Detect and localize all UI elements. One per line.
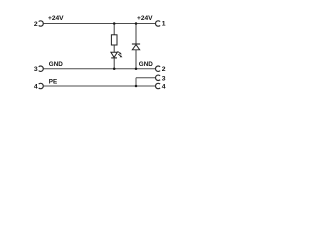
svg-text:1: 1 [162,21,166,28]
connector socket left pin 2 [39,21,44,26]
wire GND rail [43,68,155,70]
junction dot GND / diode branch [135,67,138,70]
junction dot +24V / resistor branch [113,22,116,25]
svg-text:+24V: +24V [48,15,64,22]
connector socket left pin 4 [39,83,44,88]
svg-text:4: 4 [162,84,166,91]
wire resistor branch top [113,24,115,35]
connector socket right pin 1 [156,21,161,26]
wire resistor to LED [113,45,115,52]
svg-text:GND: GND [49,61,63,68]
wire LED to GND [113,58,115,69]
resistor [111,35,117,45]
svg-text:2: 2 [162,66,166,73]
wire diode to GND [135,50,137,69]
junction dot +24V / diode branch [135,22,138,25]
LED D1 [111,51,123,58]
svg-text:PE: PE [49,79,57,86]
svg-text:2: 2 [34,21,38,28]
wire jumper pin3-pin4 [135,78,137,86]
wire diode branch top [135,24,137,45]
wire PE rail [43,85,155,87]
junction dot GND / LED branch [113,67,116,70]
svg-text:GND: GND [139,61,153,68]
svg-text:+24V: +24V [137,15,153,22]
wire pin3 stub [136,77,156,79]
connector socket right pin 2 [156,66,161,71]
svg-text:3: 3 [34,66,38,73]
connector socket right pin 3 [156,75,161,80]
connector socket right pin 4 [156,83,161,88]
svg-text:4: 4 [34,83,38,90]
svg-text:3: 3 [162,75,166,82]
connector socket left pin 3 [39,66,44,71]
diode D2 (suppressor, cathode up) [132,44,140,50]
wire +24V rail [43,23,155,25]
junction dot PE / jumper [135,85,138,88]
